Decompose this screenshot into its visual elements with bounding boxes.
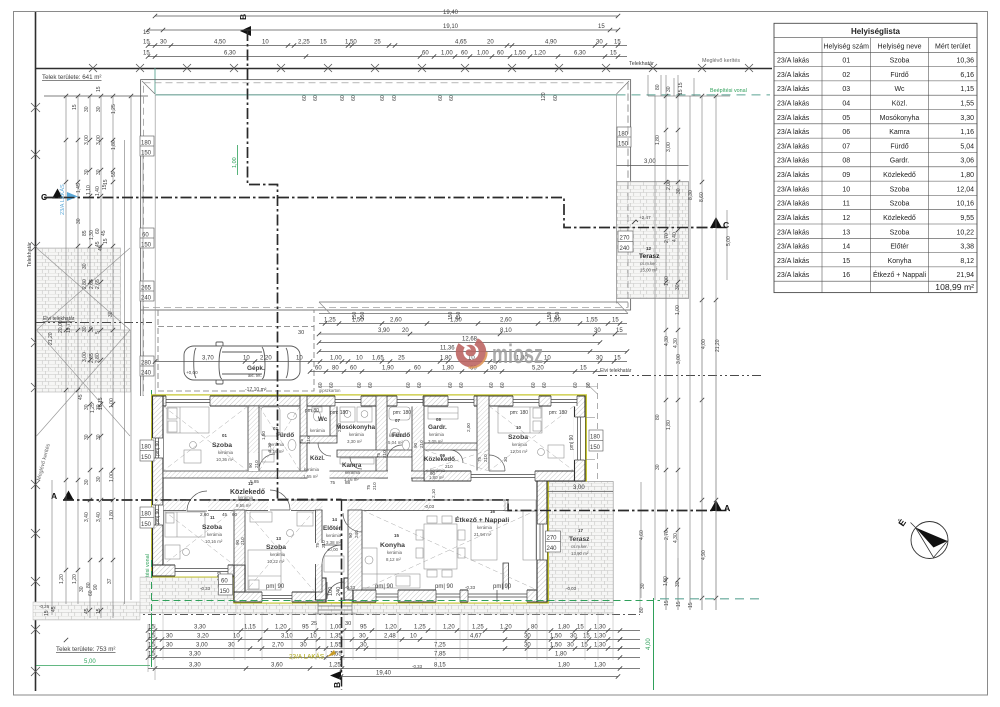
- svg-text:60: 60: [357, 382, 363, 388]
- svg-text:Konyha: Konyha: [380, 542, 405, 549]
- ruler line for 60 labels: [319, 386, 598, 388]
- svg-text:25: 25: [398, 356, 405, 362]
- svg-text:3,05 m²: 3,05 m²: [428, 439, 443, 444]
- svg-text:4,65: 4,65: [455, 40, 467, 46]
- svg-text:kerámia: kerámia: [270, 552, 286, 557]
- svg-text:15: 15: [676, 601, 682, 607]
- svg-text:150: 150: [141, 243, 152, 249]
- svg-text:1,25: 1,25: [414, 625, 426, 631]
- wall mosó/kamra: [337, 450, 412, 457]
- svg-text:kerámia: kerámia: [345, 470, 361, 475]
- exterior wall top: [153, 396, 586, 406]
- svg-text:08: 08: [842, 158, 850, 165]
- svg-text:15: 15: [842, 258, 850, 265]
- svg-text:21,20: 21,20: [48, 332, 54, 345]
- svg-text:pm: 180: pm: 180: [510, 410, 528, 416]
- svg-text:1,80: 1,80: [442, 366, 454, 372]
- svg-text:pm| 90: pm| 90: [266, 584, 285, 590]
- svg-text:kerámia: kerámia: [430, 468, 446, 473]
- svg-text:3,06: 3,06: [960, 158, 974, 165]
- svg-text:210: 210: [445, 464, 453, 469]
- window bottom szoba11: [175, 565, 228, 577]
- svg-text:3,20: 3,20: [197, 634, 209, 640]
- door arc szoba13/előtér: [322, 545, 341, 564]
- svg-text:20: 20: [487, 40, 494, 46]
- svg-text:Gardr.: Gardr.: [890, 158, 910, 165]
- section marker B bottom: [330, 671, 341, 680]
- svg-text:210: 210: [419, 440, 424, 448]
- svg-text:2,20: 2,20: [260, 356, 272, 362]
- svg-text:8,10: 8,10: [500, 328, 512, 334]
- svg-text:23/A lakás: 23/A lakás: [777, 172, 810, 179]
- svg-text:60: 60: [459, 382, 465, 388]
- svg-text:2,80: 2,80: [82, 279, 88, 289]
- svg-text:30: 30: [300, 643, 307, 649]
- entrance pillar right: [344, 578, 353, 600]
- pavement bricks south strip: [236, 603, 613, 615]
- fence X marks left: [31, 103, 40, 676]
- svg-text:-0,33: -0,33: [345, 585, 356, 590]
- green building line top: [617, 94, 771, 96]
- svg-text:60: 60: [542, 382, 548, 388]
- svg-text:kerámia: kerámia: [349, 432, 365, 437]
- svg-text:3,00: 3,00: [196, 643, 208, 649]
- svg-text:4,30: 4,30: [664, 336, 670, 346]
- svg-text:1,30: 1,30: [594, 663, 606, 669]
- room labels: [202, 416, 590, 564]
- svg-text:90: 90: [413, 442, 418, 448]
- svg-text:30: 30: [596, 356, 603, 362]
- svg-text:14: 14: [332, 517, 337, 522]
- svg-text:2,60: 2,60: [500, 318, 512, 324]
- svg-text:23/A lakás: 23/A lakás: [777, 229, 810, 236]
- svg-text:±0,00: ±0,00: [327, 547, 339, 552]
- diagonals over left brick area: [37, 248, 131, 436]
- window sill lines east: [585, 417, 595, 419]
- svg-text:10,36: 10,36: [956, 58, 974, 65]
- svg-text:90: 90: [348, 532, 353, 538]
- svg-text:10: 10: [842, 186, 850, 193]
- terasz 12 door size box: [618, 231, 633, 252]
- svg-text:11: 11: [210, 515, 215, 520]
- svg-text:30: 30: [108, 311, 114, 317]
- svg-text:60: 60: [448, 382, 454, 388]
- svg-text:1,80: 1,80: [558, 663, 570, 669]
- svg-text:90: 90: [248, 462, 253, 468]
- svg-text:3,40: 3,40: [96, 512, 102, 522]
- svg-text:8,12: 8,12: [960, 258, 974, 265]
- svg-text:Konyha: Konyha: [888, 258, 912, 265]
- section line B vertical: [248, 30, 342, 690]
- svg-text:kerámia: kerámia: [304, 467, 320, 472]
- svg-text:10: 10: [544, 356, 551, 362]
- rotated 60 labels along roof top edge: [302, 92, 559, 101]
- svg-text:4,60: 4,60: [639, 530, 645, 540]
- roof bottom double line: [319, 301, 628, 303]
- wall előtér/konyha: [348, 510, 362, 590]
- svg-text:kerámia: kerámia: [326, 533, 342, 538]
- wall konyha/étkező stub: [503, 563, 509, 590]
- svg-text:45: 45: [222, 512, 228, 517]
- svg-text:23/A lakás: 23/A lakás: [777, 244, 810, 251]
- right dim column lines: [654, 96, 656, 600]
- svg-text:60: 60: [315, 366, 322, 372]
- svg-text:-0,03: -0,03: [566, 586, 577, 591]
- svg-text:30: 30: [96, 106, 102, 112]
- svg-text:1,80: 1,80: [655, 135, 661, 145]
- roof inner dashed rect: [144, 83, 629, 307]
- svg-text:A: A: [724, 503, 730, 513]
- svg-text:15: 15: [612, 318, 619, 324]
- svg-text:1,50: 1,50: [549, 318, 561, 324]
- svg-text:1,45: 1,45: [76, 183, 82, 193]
- svg-text:240: 240: [547, 546, 558, 552]
- svg-text:240: 240: [620, 246, 631, 252]
- corridor door gaps: [186, 453, 503, 511]
- svg-text:pm: 180: pm: 180: [549, 410, 567, 416]
- svg-text:Helyiséglista: Helyiséglista: [851, 27, 900, 36]
- svg-text:3,30: 3,30: [960, 115, 974, 122]
- svg-text:15: 15: [616, 328, 623, 334]
- porch steps: [313, 600, 357, 614]
- svg-text:75: 75: [477, 456, 482, 462]
- svg-text:75: 75: [376, 452, 381, 458]
- dim 3,00 above terasz: [617, 165, 689, 167]
- svg-text:19,40: 19,40: [443, 10, 459, 16]
- svg-text:6,16: 6,16: [960, 72, 974, 79]
- svg-text:45: 45: [101, 230, 107, 236]
- svg-text:30: 30: [96, 476, 102, 482]
- svg-text:12,04: 12,04: [956, 186, 974, 193]
- svg-text:23/A lakás: 23/A lakás: [777, 186, 810, 193]
- svg-text:Terasz: Terasz: [639, 253, 660, 260]
- svg-text:1,00: 1,00: [675, 305, 681, 315]
- svg-text:Kamra: Kamra: [889, 129, 910, 136]
- svg-text:3,30 m²: 3,30 m²: [347, 439, 362, 444]
- svg-text:75: 75: [366, 484, 371, 490]
- svg-text:23/A lakás: 23/A lakás: [777, 272, 810, 279]
- svg-text:15: 15: [580, 366, 587, 372]
- svg-text:60: 60: [500, 382, 506, 388]
- svg-text:15: 15: [614, 356, 621, 362]
- svg-text:80: 80: [332, 366, 339, 372]
- svg-text:30: 30: [84, 169, 90, 175]
- svg-text:Előtér: Előtér: [323, 525, 342, 532]
- top dim 19,10: [148, 29, 618, 31]
- svg-text:8,60: 8,60: [699, 192, 705, 202]
- svg-text:30: 30: [360, 643, 367, 649]
- svg-text:9,55 m²: 9,55 m²: [236, 503, 251, 508]
- svg-text:1,10: 1,10: [86, 185, 92, 195]
- svg-text:210: 210: [483, 454, 488, 462]
- svg-text:3,00: 3,00: [644, 159, 656, 165]
- svg-text:30: 30: [596, 40, 603, 46]
- exterior wall bottom szoba11: [153, 565, 246, 576]
- svg-text:30: 30: [676, 188, 682, 194]
- svg-text:17: 17: [578, 528, 583, 533]
- svg-text:Fürdő: Fürdő: [276, 432, 294, 439]
- plot boundary top (telekhatár): [36, 68, 773, 70]
- top dim 19,40: [155, 15, 618, 17]
- pm labels bottom windows: [266, 584, 512, 590]
- furniture szoba10: [498, 407, 564, 458]
- svg-text:1,20: 1,20: [59, 574, 65, 584]
- svg-text:210: 210: [240, 537, 245, 545]
- svg-text:4,30: 4,30: [673, 533, 679, 543]
- svg-text:240: 240: [354, 530, 359, 538]
- svg-text:Közlekedő: Közlekedő: [424, 456, 455, 463]
- svg-text:12: 12: [842, 215, 850, 222]
- svg-text:10,22 m²: 10,22 m²: [267, 559, 285, 564]
- svg-text:1,55: 1,55: [586, 318, 598, 324]
- svg-text:3,70: 3,70: [202, 356, 214, 362]
- svg-text:280: 280: [141, 361, 152, 367]
- svg-text:Telek területe: 641 m²: Telek területe: 641 m²: [42, 74, 102, 81]
- svg-text:1,00: 1,00: [441, 51, 453, 57]
- section line B overlay: [248, 30, 342, 668]
- green building line left overlay: [151, 560, 153, 667]
- green building line right vertical: [653, 598, 655, 690]
- svg-text:3,38 m²: 3,38 m²: [326, 540, 341, 545]
- svg-text:3,30: 3,30: [194, 625, 206, 631]
- svg-text:25: 25: [311, 621, 317, 627]
- svg-text:23/A lakás: 23/A lakás: [777, 143, 810, 150]
- svg-text:30: 30: [166, 634, 173, 640]
- svg-text:60: 60: [461, 51, 468, 57]
- svg-text:02: 02: [842, 72, 850, 79]
- section marker A left: [63, 491, 74, 501]
- svg-text:15: 15: [96, 86, 102, 92]
- svg-text:60: 60: [489, 382, 495, 388]
- svg-text:10: 10: [516, 425, 521, 430]
- svg-text:2,48: 2,48: [384, 634, 396, 640]
- door fürdő07: [387, 445, 402, 460]
- svg-text:Wc: Wc: [894, 86, 905, 93]
- svg-text:C: C: [723, 220, 729, 230]
- svg-text:60: 60: [380, 95, 386, 101]
- svg-text:15: 15: [598, 24, 605, 30]
- furniture wc: [312, 407, 322, 421]
- svg-text:miosz: miosz: [492, 339, 543, 369]
- svg-text:Szoba: Szoba: [890, 229, 910, 236]
- exterior wall mid horizontal szoba10 bottom: [424, 471, 585, 481]
- svg-text:Helyiség neve: Helyiség neve: [878, 44, 922, 51]
- svg-text:Meglévő kerítés: Meglévő kerítés: [702, 58, 740, 64]
- svg-text:4,40: 4,40: [672, 232, 678, 242]
- svg-text:13: 13: [842, 229, 850, 236]
- svg-text:5,04: 5,04: [960, 143, 974, 150]
- svg-text:cs.m.ker.: cs.m.ker.: [640, 261, 657, 266]
- svg-text:Gardr.: Gardr.: [428, 424, 447, 431]
- blue arrow: [67, 192, 78, 201]
- svg-text:60: 60: [88, 590, 94, 596]
- svg-text:pm| 90: pm| 90: [569, 435, 575, 450]
- svg-text:Telekhatár: Telekhatár: [629, 61, 654, 67]
- svg-text:1,55 m²: 1,55 m²: [303, 474, 318, 479]
- svg-text:60: 60: [497, 51, 504, 57]
- svg-text:1,16 m²: 1,16 m²: [344, 477, 359, 482]
- svg-text:1,20: 1,20: [443, 625, 455, 631]
- svg-text:Gépk.: Gépk.: [247, 365, 265, 372]
- wall fürdő02/wc: [300, 396, 307, 478]
- svg-text:10,36 m²: 10,36 m²: [216, 457, 234, 462]
- svg-text:Szoba: Szoba: [508, 434, 528, 441]
- svg-text:pm 80: pm 80: [305, 408, 319, 414]
- corridor top wall: [163, 471, 424, 478]
- svg-text:10: 10: [410, 634, 417, 640]
- svg-text:23/A lakás: 23/A lakás: [777, 72, 810, 79]
- entrance door size rotated: [328, 587, 342, 596]
- svg-text:3,40: 3,40: [84, 512, 90, 522]
- svg-text:15: 15: [103, 238, 109, 244]
- svg-text:6,30: 6,30: [574, 51, 586, 57]
- svg-text:180: 180: [590, 435, 601, 441]
- roof outline rect: [141, 80, 631, 310]
- svg-text:1,50: 1,50: [450, 318, 462, 324]
- exterior wall bottom main: [353, 590, 547, 602]
- svg-text:60: 60: [318, 382, 324, 388]
- pm rotated left/right: [155, 435, 575, 587]
- svg-text:1,20: 1,20: [385, 625, 397, 631]
- svg-text:3,30: 3,30: [189, 652, 201, 658]
- svg-text:20,00: 20,00: [58, 320, 64, 333]
- svg-text:1,55: 1,55: [330, 643, 342, 649]
- svg-text:1,30: 1,30: [594, 625, 606, 631]
- interior walls: [163, 396, 509, 592]
- svg-text:1,25: 1,25: [329, 663, 341, 669]
- svg-text:4,30: 4,30: [673, 338, 679, 348]
- svg-text:Közl.: Közl.: [892, 101, 908, 108]
- svg-text:120: 120: [541, 92, 547, 101]
- svg-text:3,00: 3,00: [573, 485, 585, 491]
- svg-text:15: 15: [320, 40, 327, 46]
- svg-text:Wc: Wc: [318, 416, 328, 423]
- windows left wall: [152, 438, 163, 525]
- svg-text:01: 01: [222, 433, 227, 438]
- svg-text:2,60: 2,60: [200, 512, 209, 517]
- svg-text:10: 10: [243, 356, 250, 362]
- svg-text:60: 60: [392, 95, 398, 101]
- svg-text:Közlekedő: Közlekedő: [883, 172, 916, 179]
- mid dim rows: [319, 323, 627, 325]
- wall wc/mosókonyha: [330, 406, 337, 436]
- svg-text:60: 60: [351, 95, 357, 101]
- svg-text:Szoba: Szoba: [890, 201, 910, 208]
- svg-text:12,68: 12,68: [462, 337, 478, 343]
- door szoba13: [270, 490, 290, 510]
- svg-text:-0,33: -0,33: [200, 586, 211, 591]
- svg-text:10,16: 10,16: [956, 201, 974, 208]
- svg-text:8,12 m²: 8,12 m²: [386, 557, 401, 562]
- svg-text:19,40: 19,40: [376, 671, 392, 677]
- svg-text:Szoba: Szoba: [212, 442, 232, 449]
- svg-text:23/A lakás: 23/A lakás: [777, 129, 810, 136]
- svg-text:Terasz: Terasz: [569, 536, 590, 543]
- svg-text:1,20: 1,20: [534, 51, 546, 57]
- svg-text:210: 210: [306, 436, 311, 444]
- svg-text:30: 30: [76, 218, 82, 224]
- svg-text:09: 09: [842, 172, 850, 179]
- svg-text:80: 80: [531, 625, 538, 631]
- svg-text:Mért terület: Mért terület: [935, 44, 970, 51]
- svg-text:Elvi telekhatár: Elvi telekhatár: [600, 368, 632, 374]
- svg-text:80: 80: [655, 84, 661, 90]
- svg-text:pm| 90: pm| 90: [493, 584, 512, 590]
- svg-text:30: 30: [298, 330, 304, 336]
- svg-text:11,36: 11,36: [440, 346, 455, 352]
- svg-text:kerámia: kerámia: [238, 495, 254, 500]
- svg-text:Szoba: Szoba: [202, 524, 222, 531]
- svg-text:25: 25: [374, 40, 381, 46]
- svg-text:pm: 180: pm: 180: [330, 410, 348, 416]
- svg-text:-0,33: -0,33: [465, 585, 476, 590]
- svg-text:15: 15: [577, 625, 584, 631]
- svg-text:kerámia: kerámia: [310, 428, 326, 433]
- svg-text:4,50: 4,50: [214, 40, 226, 46]
- exterior wall step szoba13: [234, 565, 245, 602]
- green building line vertical: [154, 68, 156, 94]
- svg-text:13: 13: [276, 536, 281, 541]
- svg-text:+0,00: +0,00: [186, 370, 198, 375]
- car top view: [184, 342, 300, 384]
- plot boundary left (telekhatár): [35, 12, 37, 691]
- svg-text:kerámia: kerámia: [269, 442, 285, 447]
- svg-text:5,00: 5,00: [84, 659, 96, 665]
- svg-text:03: 03: [842, 86, 850, 93]
- svg-text:3,10: 3,10: [281, 634, 293, 640]
- svg-text:pm| 90: pm| 90: [375, 584, 394, 590]
- svg-text:Étkező + Nappali: Étkező + Nappali: [455, 515, 509, 524]
- svg-text:60: 60: [422, 51, 429, 57]
- door gap szoba13/előtér: [315, 543, 323, 564]
- svg-text:3,00: 3,00: [676, 354, 682, 364]
- svg-text:akt. tet.: akt. tet.: [248, 373, 262, 378]
- svg-text:16: 16: [842, 272, 850, 279]
- svg-text:30: 30: [655, 464, 661, 470]
- svg-text:-0,26: -0,26: [39, 604, 50, 609]
- boxed window label roof right top: [617, 127, 631, 148]
- svg-text:15: 15: [143, 40, 150, 46]
- furniture fürdő02: [261, 407, 297, 462]
- svg-text:150: 150: [590, 445, 601, 451]
- svg-text:1,00: 1,00: [477, 51, 489, 57]
- svg-text:1,50: 1,50: [352, 318, 364, 324]
- svg-text:23/A lakás: 23/A lakás: [777, 215, 810, 222]
- svg-text:5,00: 5,00: [726, 236, 732, 246]
- wall szoba13/előtér: [316, 510, 323, 592]
- furniture szoba11: [165, 512, 205, 559]
- svg-text:150: 150: [141, 151, 152, 157]
- svg-text:23/A lakás: 23/A lakás: [777, 115, 810, 122]
- svg-text:Telek területe: 753 m²: Telek területe: 753 m²: [56, 646, 116, 653]
- svg-text:3,00: 3,00: [84, 135, 90, 145]
- left neighbour building brick area: [37, 248, 121, 330]
- svg-text:1,30: 1,30: [594, 643, 606, 649]
- svg-text:100: 100: [328, 587, 334, 596]
- door fürdő02: [259, 454, 275, 470]
- svg-text:80: 80: [586, 382, 592, 388]
- svg-text:15: 15: [103, 179, 109, 185]
- svg-text:30: 30: [96, 434, 102, 440]
- svg-text:1,30: 1,30: [594, 634, 606, 640]
- svg-text:10: 10: [262, 40, 269, 46]
- elvi telekhatár dashed left: [36, 322, 152, 324]
- svg-text:180: 180: [141, 445, 152, 451]
- svg-text:4,67: 4,67: [470, 634, 482, 640]
- svg-text:60: 60: [329, 382, 335, 388]
- svg-text:150: 150: [618, 142, 629, 148]
- svg-text:23/A lakás: 23/A lakás: [777, 258, 810, 265]
